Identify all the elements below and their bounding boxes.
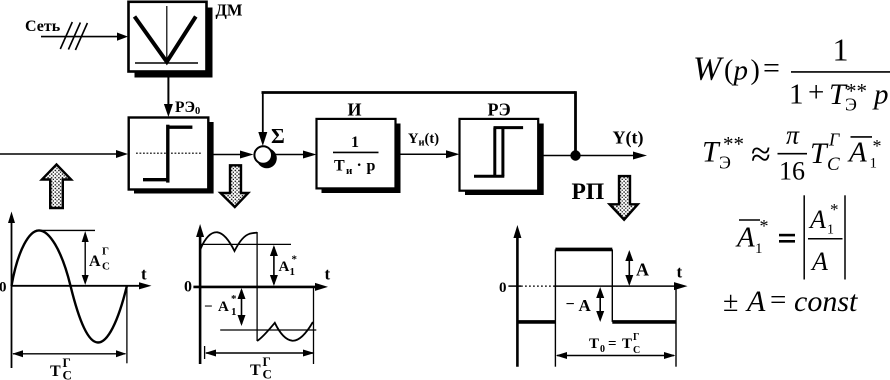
plot2 period right boundary (313, 288, 315, 364)
svg-text:t: t (141, 265, 147, 284)
svg-text:C: C (102, 261, 110, 273)
plot2 period arrow (206, 352, 313, 354)
svg-text:T: T (50, 363, 61, 380)
svg-text:Г: Г (102, 246, 109, 258)
DM inner V shape (135, 17, 196, 62)
svg-text:Yи(t): Yи(t) (408, 131, 439, 149)
svg-text:Г: Г (828, 130, 840, 150)
plot3 square wave high (555, 248, 612, 252)
svg-text:0: 0 (184, 279, 192, 296)
svg-text:**: ** (846, 79, 867, 103)
wire I to RE (400, 153, 448, 155)
svg-text:±: ± (723, 287, 738, 318)
svg-text:1: 1 (827, 223, 834, 238)
relay RE box (460, 119, 539, 191)
svg-text:=: = (763, 52, 780, 85)
svg-text:A: A (745, 285, 766, 318)
plot1 peak level line (36, 229, 95, 231)
svg-text:W: W (693, 51, 724, 88)
hollow up arrow (input disturbance) (42, 165, 71, 209)
svg-text:Г: Г (633, 332, 639, 343)
svg-text:p: p (732, 55, 749, 87)
plot3 A arrow (628, 252, 630, 284)
svg-text:A: A (847, 137, 867, 169)
plot3 x-axis (508, 285, 521, 287)
svg-text:p: p (872, 79, 889, 111)
plot3 y-axis (516, 236, 519, 367)
summator circle (254, 146, 272, 164)
wire summator to I block (273, 154, 305, 156)
plot3 square wave low left (517, 320, 555, 324)
svg-text:t: t (325, 265, 331, 284)
svg-text:T: T (622, 336, 632, 352)
svg-text:0: 0 (499, 280, 507, 296)
plot2 -A1* arrow (241, 290, 243, 324)
plot2 transition line (256, 232, 258, 341)
relay RE0 shadow (134, 122, 214, 194)
wire RE0 to summator (213, 154, 242, 156)
block DM (demodulator) shadow (135, 8, 213, 78)
svg-text:≈: ≈ (751, 134, 771, 174)
svg-text:16: 16 (779, 157, 805, 186)
svg-text:A: A (808, 205, 826, 234)
svg-text:−: − (204, 299, 213, 315)
svg-text:A: A (579, 296, 592, 315)
svg-text:C: C (827, 154, 840, 175)
plot1 period right boundary (126, 287, 128, 363)
svg-text:A: A (735, 222, 755, 254)
svg-text:и: и (346, 165, 353, 177)
plot3 right boundary line (675, 286, 677, 367)
relay RE0 box (129, 118, 209, 190)
svg-text:C: C (263, 367, 272, 380)
svg-text:A: A (89, 253, 101, 270)
svg-text:T: T (250, 362, 261, 379)
plot2 period left tick (204, 346, 206, 359)
plot2 upper ripple (201, 232, 258, 251)
svg-text:−: − (566, 296, 575, 313)
summator shadow (257, 148, 277, 168)
svg-text:π: π (786, 121, 800, 150)
svg-text:): ) (751, 55, 760, 86)
svg-text:p: p (367, 158, 376, 175)
DM inner bottom line (135, 62, 198, 64)
RE0 dashed midline (136, 152, 201, 154)
wire RE to output (541, 155, 635, 157)
svg-text:1: 1 (789, 79, 804, 111)
svg-text:*: * (760, 216, 769, 236)
plot3 -A arrow (599, 289, 601, 320)
RE0 relay step symbol (166, 125, 169, 183)
three-phase slashes (60, 22, 72, 49)
hollow down arrow (after RE0) (221, 165, 249, 207)
svg-text:const: const (794, 285, 858, 318)
wire feedback top horizontal (262, 91, 576, 94)
plot2 A1* arrow (273, 247, 275, 284)
plot1 y-axis (11, 221, 13, 368)
svg-text:1: 1 (290, 266, 296, 278)
wire system input (0, 153, 118, 155)
svg-text:T: T (589, 336, 599, 352)
wire DM to RE0 (167, 72, 169, 106)
relay RE shadow (465, 124, 544, 196)
svg-text:=: = (770, 284, 786, 316)
plot3 square wave low right (612, 320, 676, 324)
svg-text:(: ( (724, 55, 733, 86)
plot1 amplitude arrow (84, 234, 86, 283)
RE hysteresis symbol (493, 128, 496, 177)
plot2 lower ripple (257, 322, 313, 341)
plot2 lower mean line (220, 329, 316, 331)
plot2 y-axis (199, 235, 202, 364)
block DM box (129, 2, 207, 72)
svg-text:*: * (873, 136, 882, 156)
svg-text:t: t (677, 263, 683, 282)
svg-text:И: И (348, 100, 362, 120)
svg-text:=: = (608, 336, 617, 352)
integrator I box (317, 119, 396, 188)
I fraction bar (333, 151, 379, 153)
wire feedback right vertical (574, 91, 577, 152)
svg-text:1: 1 (833, 32, 849, 68)
svg-text:C: C (633, 345, 640, 356)
svg-text:C: C (63, 368, 72, 380)
svg-text:A: A (636, 260, 649, 280)
svg-text:1: 1 (870, 156, 878, 172)
plot3 period arrow (557, 355, 674, 357)
svg-text:0: 0 (0, 280, 7, 296)
plot1 sine wave (12, 230, 127, 342)
plot3 transition (611, 249, 613, 322)
plot3 left boundary line (554, 249, 556, 366)
svg-text:1: 1 (231, 306, 237, 318)
svg-text:1: 1 (755, 241, 763, 257)
svg-text:*: * (231, 293, 237, 305)
svg-text:РЭ: РЭ (488, 100, 511, 120)
integrator I shadow (322, 124, 401, 194)
svg-text:*: * (830, 200, 839, 219)
plot1 period arrow (13, 353, 125, 355)
svg-text:T: T (334, 158, 345, 175)
node output junction (570, 150, 580, 160)
hollow down arrow (RP) (610, 176, 638, 220)
svg-text:ДМ: ДМ (216, 1, 243, 20)
svg-text:A: A (279, 259, 290, 275)
svg-text:*: * (292, 254, 298, 266)
plot1 x-axis (12, 285, 142, 287)
svg-text:A: A (810, 247, 828, 276)
svg-text:+: + (808, 77, 824, 109)
svg-text:Σ: Σ (271, 124, 285, 148)
svg-text:Сеть: Сеть (25, 18, 61, 35)
svg-text:·: · (357, 157, 362, 174)
wire mains input line (41, 36, 120, 38)
wire feedback into summator (262, 93, 264, 135)
formula A1* definition (739, 219, 760, 221)
svg-text:**: ** (723, 132, 744, 156)
svg-text:1: 1 (351, 134, 359, 151)
plot2 x-axis (193, 286, 317, 289)
plot2 upper mean line (200, 243, 291, 245)
svg-text:Y(t): Y(t) (613, 128, 644, 149)
svg-text:A: A (218, 299, 229, 315)
svg-text:0: 0 (600, 344, 605, 355)
svg-text:РП: РП (572, 179, 605, 205)
DM inner vertical line (166, 6, 168, 63)
